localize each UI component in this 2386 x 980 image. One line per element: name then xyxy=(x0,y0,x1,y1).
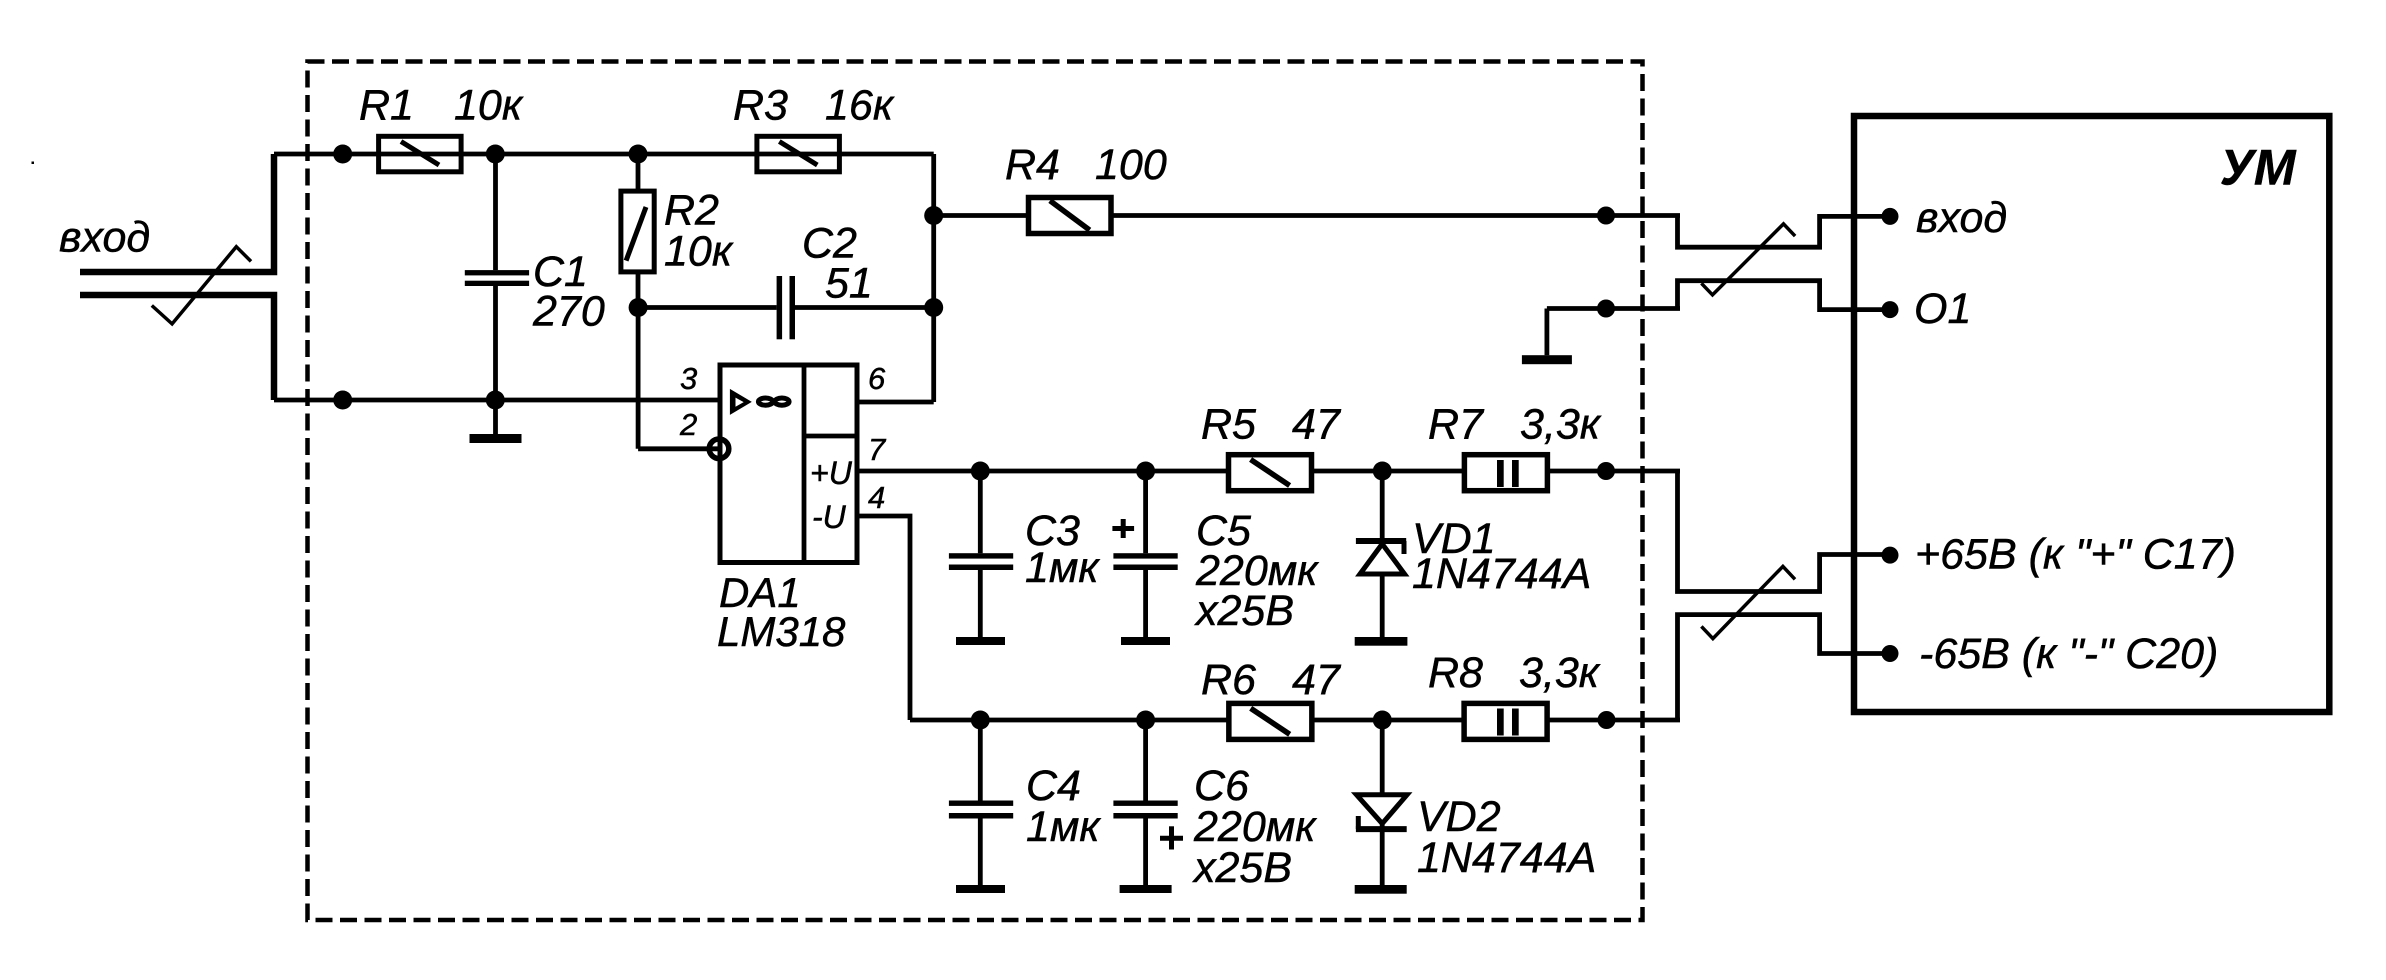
wire R4 output to cable xyxy=(1111,213,1680,218)
capacitor C6 xyxy=(1113,720,1177,885)
svg-text:вход: вход xyxy=(1916,194,2007,242)
svg-text:1мк: 1мк xyxy=(1026,803,1101,851)
inversion bubble pin 2 xyxy=(709,439,729,459)
ground (C6) xyxy=(1120,885,1172,893)
node C4 top xyxy=(971,711,990,730)
resistor R3 xyxy=(757,136,840,172)
wire input top conductor xyxy=(80,154,274,272)
resistor R8 xyxy=(1464,703,1547,739)
ground (C4) xyxy=(956,885,1005,893)
capacitor C4 xyxy=(949,720,1013,885)
wire R5 to R7 xyxy=(1312,469,1465,474)
node C5 top xyxy=(1136,462,1155,481)
svg-text:R6: R6 xyxy=(1201,656,1256,704)
svg-text:УМ: УМ xyxy=(2220,140,2297,196)
op-amp U1 DA1 xyxy=(720,365,857,563)
svg-text:R5: R5 xyxy=(1201,401,1257,449)
terminal node O1 (УМ) xyxy=(1882,301,1899,318)
svg-text:-65В (к "-" С20): -65В (к "-" С20) xyxy=(1919,630,2218,678)
svg-text:51: 51 xyxy=(825,260,873,308)
svg-text:-U: -U xyxy=(812,499,847,535)
resistor R7 xyxy=(1464,455,1547,491)
capacitor C5 xyxy=(1113,471,1177,637)
node R4 output xyxy=(1597,207,1615,225)
svg-text:R7: R7 xyxy=(1428,401,1485,449)
node input bottom xyxy=(333,391,352,410)
svg-text:+65В (к "+" С17): +65В (к "+" С17) xyxy=(1915,531,2236,579)
wire right vertical (R3/C2/R4/pin6 bus) xyxy=(931,154,936,402)
node R4 left xyxy=(924,206,943,225)
svg-text:16к: 16к xyxy=(825,82,895,130)
node R7 output xyxy=(1597,462,1615,480)
node VD1 top xyxy=(1373,462,1392,481)
ground (VD2) xyxy=(1355,885,1407,894)
svg-text:100: 100 xyxy=(1095,141,1167,189)
wire input bottom conductor xyxy=(80,295,274,400)
resistor R1 xyxy=(379,136,462,172)
wire cable jog (вход line) xyxy=(1678,216,1891,248)
svg-text:LM318: LM318 xyxy=(717,608,846,655)
wire pin 6 xyxy=(857,400,934,405)
svg-text:вход: вход xyxy=(59,214,150,262)
polarity plus (C5) xyxy=(1112,519,1134,538)
dashed preamp block boundary xyxy=(308,62,1643,921)
wire O1 line xyxy=(1547,306,1680,311)
capacitor C3 xyxy=(949,471,1013,637)
svg-text:10к: 10к xyxy=(664,228,734,276)
ground (C3) xyxy=(956,637,1005,645)
terminal node +65В (УМ) xyxy=(1882,547,1899,564)
wire R4 left xyxy=(934,213,1029,218)
resistor R6 xyxy=(1229,703,1312,739)
svg-text:3: 3 xyxy=(680,361,697,396)
wire R8 output xyxy=(1547,718,1680,723)
wire pin 2 xyxy=(638,308,719,449)
svg-text:7: 7 xyxy=(868,432,887,467)
svg-text:х25В: х25В xyxy=(1194,587,1294,635)
wire -U rail xyxy=(910,718,1229,723)
wire cable jog (+65В line) xyxy=(1678,471,1891,592)
node R2 bottom / C2 left xyxy=(629,298,648,317)
wire R7 output xyxy=(1547,469,1680,474)
svg-text:47: 47 xyxy=(1292,656,1342,704)
block УМ (power amplifier) xyxy=(1854,116,2329,712)
terminal node -65В (УМ) xyxy=(1882,645,1899,662)
wire R6 to R8 xyxy=(1312,718,1464,723)
twisted-pair mark (input cable) xyxy=(152,247,251,324)
svg-text:1мк: 1мк xyxy=(1025,544,1100,592)
node R8 output xyxy=(1598,711,1616,729)
wire pin 4 xyxy=(857,516,910,720)
node VD2 top xyxy=(1373,711,1392,730)
capacitor C2 xyxy=(638,276,934,339)
twisted-pair mark (top cable) xyxy=(1701,224,1795,295)
wire top rail xyxy=(274,152,934,157)
svg-text:2: 2 xyxy=(679,407,697,442)
node O1 line xyxy=(1597,300,1615,318)
ground (C5) xyxy=(1121,637,1170,645)
node R2 top xyxy=(629,145,648,164)
svg-text:270: 270 xyxy=(532,288,605,336)
zener diode VD1 xyxy=(1356,471,1406,637)
svg-text:O1: O1 xyxy=(1914,285,1971,333)
svg-text:3,3к: 3,3к xyxy=(1520,401,1602,449)
svg-text:1N4744A: 1N4744A xyxy=(1412,550,1591,598)
svg-text:47: 47 xyxy=(1292,401,1342,449)
svg-text:10к: 10к xyxy=(454,82,524,130)
polarity plus (C6) xyxy=(1160,826,1183,849)
svg-text:6: 6 xyxy=(868,361,886,396)
node C6 top xyxy=(1136,711,1155,730)
svg-text:R3: R3 xyxy=(733,82,788,130)
zener diode VD2 xyxy=(1356,720,1407,885)
wire cable jog (-65В line) xyxy=(1678,615,1891,720)
svg-text:1N4744A: 1N4744A xyxy=(1417,834,1596,882)
svg-text:R8: R8 xyxy=(1428,649,1483,697)
wire pin 7 / +U rail xyxy=(857,469,1229,474)
capacitor C1 xyxy=(465,154,529,400)
terminal node вход (УМ) xyxy=(1882,208,1899,225)
wire cable jog (O1 line) xyxy=(1678,281,1891,310)
node C2 right xyxy=(924,298,943,317)
svg-text:3,3к: 3,3к xyxy=(1519,649,1601,697)
svg-text:4: 4 xyxy=(868,480,885,515)
wire bottom rail (to pin 3) xyxy=(274,398,720,403)
svg-text:х25В: х25В xyxy=(1192,844,1292,892)
resistor R2 xyxy=(621,154,654,308)
ground (C1) xyxy=(470,400,522,443)
ground (VD1) xyxy=(1355,637,1408,646)
svg-text:R4: R4 xyxy=(1005,141,1060,189)
resistor R5 xyxy=(1229,455,1312,491)
svg-text:R1: R1 xyxy=(359,82,414,130)
node C3 top xyxy=(971,462,990,481)
ground (O1 line) xyxy=(1522,309,1572,365)
resistor R4 xyxy=(1029,198,1112,234)
twisted-pair mark (bottom cable) xyxy=(1701,566,1795,638)
node C1 bottom xyxy=(486,391,505,410)
svg-text:+U: +U xyxy=(810,455,853,491)
node input top xyxy=(333,145,352,164)
stray ink speck xyxy=(32,162,35,165)
node C1 top xyxy=(486,145,505,164)
